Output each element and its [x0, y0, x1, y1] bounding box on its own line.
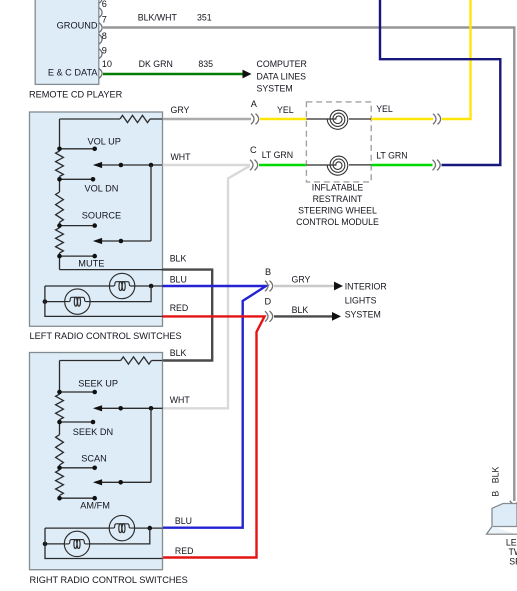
- pin 6 connector arc: [99, 0, 107, 17]
- svg-text:AM/FM: AM/FM: [80, 500, 110, 510]
- lamp L4: [64, 531, 89, 556]
- svg-text:351: 351: [197, 13, 212, 23]
- tap VOL DN: [57, 177, 95, 182]
- wire LT GRN connector C to SIR module: [259, 164, 306, 166]
- arrow to computer data lines system: [243, 70, 252, 79]
- text inflatable restraint steering wheel control module: [296, 183, 379, 227]
- svg-text:COMPUTER: COMPUTER: [257, 59, 307, 69]
- svg-text:RED: RED: [175, 546, 194, 556]
- switch common vertical: [150, 165, 152, 241]
- wire: [150, 118, 163, 120]
- svg-text:LEFT RADIO CONTROL SWITCHES: LEFT RADIO CONTROL SWITCHES: [30, 331, 182, 341]
- text left rear tweeter speaker: [506, 537, 517, 566]
- svg-text:SPEAKER: SPEAKER: [509, 556, 517, 566]
- lamp circuit top wire (BLU): [45, 526, 163, 531]
- mute/ladder bottom wire (BLK out): [60, 269, 163, 271]
- text computer data lines system: [257, 59, 307, 94]
- svg-text:6: 6: [102, 0, 107, 9]
- tap VOL UP: [57, 147, 97, 152]
- resistor R5 (horizontal zigzag): [121, 357, 152, 364]
- svg-text:GROUND: GROUND: [57, 21, 98, 31]
- svg-text:INTERIOR: INTERIOR: [345, 282, 387, 292]
- inline connector (YEL): [433, 114, 441, 125]
- tap SCAN: [57, 466, 97, 471]
- svg-text:DATA LINES: DATA LINES: [257, 71, 307, 81]
- svg-text:SYSTEM: SYSTEM: [345, 310, 381, 320]
- connector D: [265, 296, 273, 322]
- wire WHT branch down to right switches: [163, 166, 251, 408]
- svg-text:A: A: [251, 99, 258, 109]
- svg-text:SCAN: SCAN: [81, 453, 107, 463]
- tap AM/FM: [57, 496, 97, 501]
- svg-text:INFLATABLE: INFLATABLE: [312, 183, 364, 193]
- coil wire in: [306, 118, 336, 120]
- lamp branch wire: [90, 286, 151, 302]
- lamp left rail and bottom wire (RED): [45, 528, 163, 558]
- svg-text:GRY: GRY: [292, 274, 311, 284]
- lamp left rail and bottom wire (RED): [45, 286, 163, 316]
- switch wiper 2: [93, 238, 151, 244]
- wire DK BLU up to top edge: [380, 0, 500, 165]
- right radio control switches box: [30, 353, 163, 570]
- arrow to interior lights system: [332, 312, 341, 321]
- svg-text:TWEETER: TWEETER: [508, 547, 517, 557]
- wire lamp L4 to left rail: [43, 542, 65, 547]
- wire YEL up to top edge: [442, 0, 471, 119]
- svg-text:7: 7: [102, 15, 107, 25]
- svg-text:WHT: WHT: [170, 395, 191, 405]
- svg-text:VOL DN: VOL DN: [85, 183, 119, 193]
- clockspring coil 1: [327, 110, 348, 129]
- svg-text:BLK: BLK: [170, 253, 187, 263]
- svg-text:RESTRAINT: RESTRAINT: [313, 194, 363, 204]
- svg-text:SOURCE: SOURCE: [82, 211, 121, 221]
- wire GRY to connector A: [163, 118, 252, 120]
- tap SEEK DN: [57, 420, 95, 425]
- wire BLK connector D to interior lights: [274, 315, 332, 317]
- svg-text:C: C: [250, 145, 257, 155]
- svg-text:LIGHTS: LIGHTS: [345, 296, 377, 306]
- svg-text:8: 8: [102, 31, 107, 41]
- svg-text:DK GRN: DK GRN: [139, 59, 173, 69]
- svg-text:SYSTEM: SYSTEM: [257, 84, 293, 94]
- svg-text:YEL: YEL: [376, 104, 393, 114]
- lamp circuit top wire (BLU): [45, 284, 163, 289]
- switch wiper 1 (WHT common): [93, 162, 163, 168]
- svg-text:BLK: BLK: [292, 305, 309, 315]
- lamp L1: [109, 273, 134, 298]
- svg-text:LEFT REAR: LEFT REAR: [506, 537, 517, 547]
- tap SOURCE: [57, 223, 97, 228]
- svg-text:BLU: BLU: [170, 274, 187, 284]
- svg-text:BLK/WHT: BLK/WHT: [138, 13, 178, 23]
- coil wire in: [306, 164, 336, 166]
- svg-text:BLK: BLK: [170, 348, 187, 358]
- wire BLU to connector B and down: [163, 286, 267, 528]
- lamp L2: [65, 289, 90, 314]
- coil wire out: [349, 118, 371, 120]
- svg-text:B: B: [491, 491, 501, 497]
- remote CD player box: [35, 0, 99, 84]
- coil wire out: [349, 164, 371, 166]
- svg-text:LT GRN: LT GRN: [262, 150, 293, 160]
- pin 5 connector arc: [99, 0, 102, 3]
- resistor R1 (horizontal zigzag): [120, 115, 150, 122]
- switch wiper 1 (WHT common): [93, 405, 163, 411]
- wire GRY connector B to interior lights: [274, 285, 334, 287]
- text interior lights system: [345, 282, 387, 320]
- connector A: [251, 99, 259, 124]
- pin 7 connector arc: [99, 15, 107, 33]
- connector B: [265, 267, 273, 291]
- svg-text:LT GRN: LT GRN: [376, 150, 407, 160]
- svg-text:WHT: WHT: [171, 152, 192, 162]
- svg-text:RIGHT RADIO CONTROL SWITCHES: RIGHT RADIO CONTROL SWITCHES: [30, 575, 188, 585]
- tap SEEK UP: [57, 390, 97, 395]
- svg-text:RED: RED: [170, 303, 189, 313]
- pin 10 connector arc: [99, 59, 112, 78]
- wire YEL SIR module to connector: [371, 118, 433, 120]
- left tweeter speaker symbol: [487, 504, 517, 535]
- arrow to interior lights system: [334, 282, 343, 291]
- switch common vertical: [150, 408, 152, 482]
- svg-text:REMOTE CD PLAYER: REMOTE CD PLAYER: [29, 90, 123, 100]
- wire: [152, 360, 163, 362]
- wire LT GRN SIR module to connector: [371, 164, 432, 166]
- svg-text:D: D: [265, 296, 272, 306]
- svg-text:YEL: YEL: [277, 105, 294, 115]
- resistor feed wire (GRY output): [60, 118, 121, 120]
- wire DK GRN 835: [103, 73, 243, 75]
- pin connector arc at speaker: [510, 501, 517, 504]
- wire BLK/WHT 351 from pin 7 to left tweeter speaker: [103, 28, 514, 502]
- inflatable restraint steering wheel control module (dashed box): [306, 102, 371, 182]
- svg-text:SEEK UP: SEEK UP: [78, 379, 118, 389]
- wire YEL connector A to SIR module: [260, 118, 306, 120]
- svg-text:10: 10: [102, 59, 112, 69]
- wire RED to connector D and down: [163, 316, 265, 557]
- connector C: [250, 145, 258, 171]
- svg-text:B: B: [265, 267, 271, 277]
- svg-text:BLU: BLU: [175, 516, 192, 526]
- wire BLK linking both switch assemblies: [163, 270, 213, 361]
- resistor feed wire (BLK output): [60, 360, 121, 362]
- svg-text:SEEK DN: SEEK DN: [73, 427, 113, 437]
- svg-text:CONTROL MODULE: CONTROL MODULE: [296, 217, 379, 227]
- inline connector (LT GRN): [433, 160, 441, 171]
- clockspring coil 2: [327, 156, 348, 175]
- svg-text:E & C DATA: E & C DATA: [48, 67, 99, 77]
- svg-text:BLK: BLK: [491, 467, 501, 484]
- svg-text:STEERING WHEEL: STEERING WHEEL: [298, 206, 377, 216]
- lamp branch wire: [90, 528, 150, 544]
- svg-text:9: 9: [102, 45, 107, 55]
- resistor ladder vertical with R2 R3 R4: [56, 119, 64, 270]
- resistor ladder vertical with R6 R7 R8: [56, 361, 64, 499]
- wire lamp L2 to left rail: [43, 299, 65, 304]
- switch wiper 2: [93, 479, 151, 485]
- wire WHT to connector C: [163, 164, 251, 166]
- svg-text:VOL UP: VOL UP: [88, 136, 121, 146]
- pin 8 connector arc: [99, 31, 107, 44]
- left radio control switches box: [30, 112, 163, 326]
- lamp L3: [109, 515, 134, 540]
- svg-text:GRY: GRY: [171, 105, 190, 115]
- tap MUTE: [57, 254, 97, 259]
- svg-text:835: 835: [198, 59, 213, 69]
- pin 9 connector arc: [99, 45, 107, 58]
- svg-text:MUTE: MUTE: [78, 258, 104, 268]
